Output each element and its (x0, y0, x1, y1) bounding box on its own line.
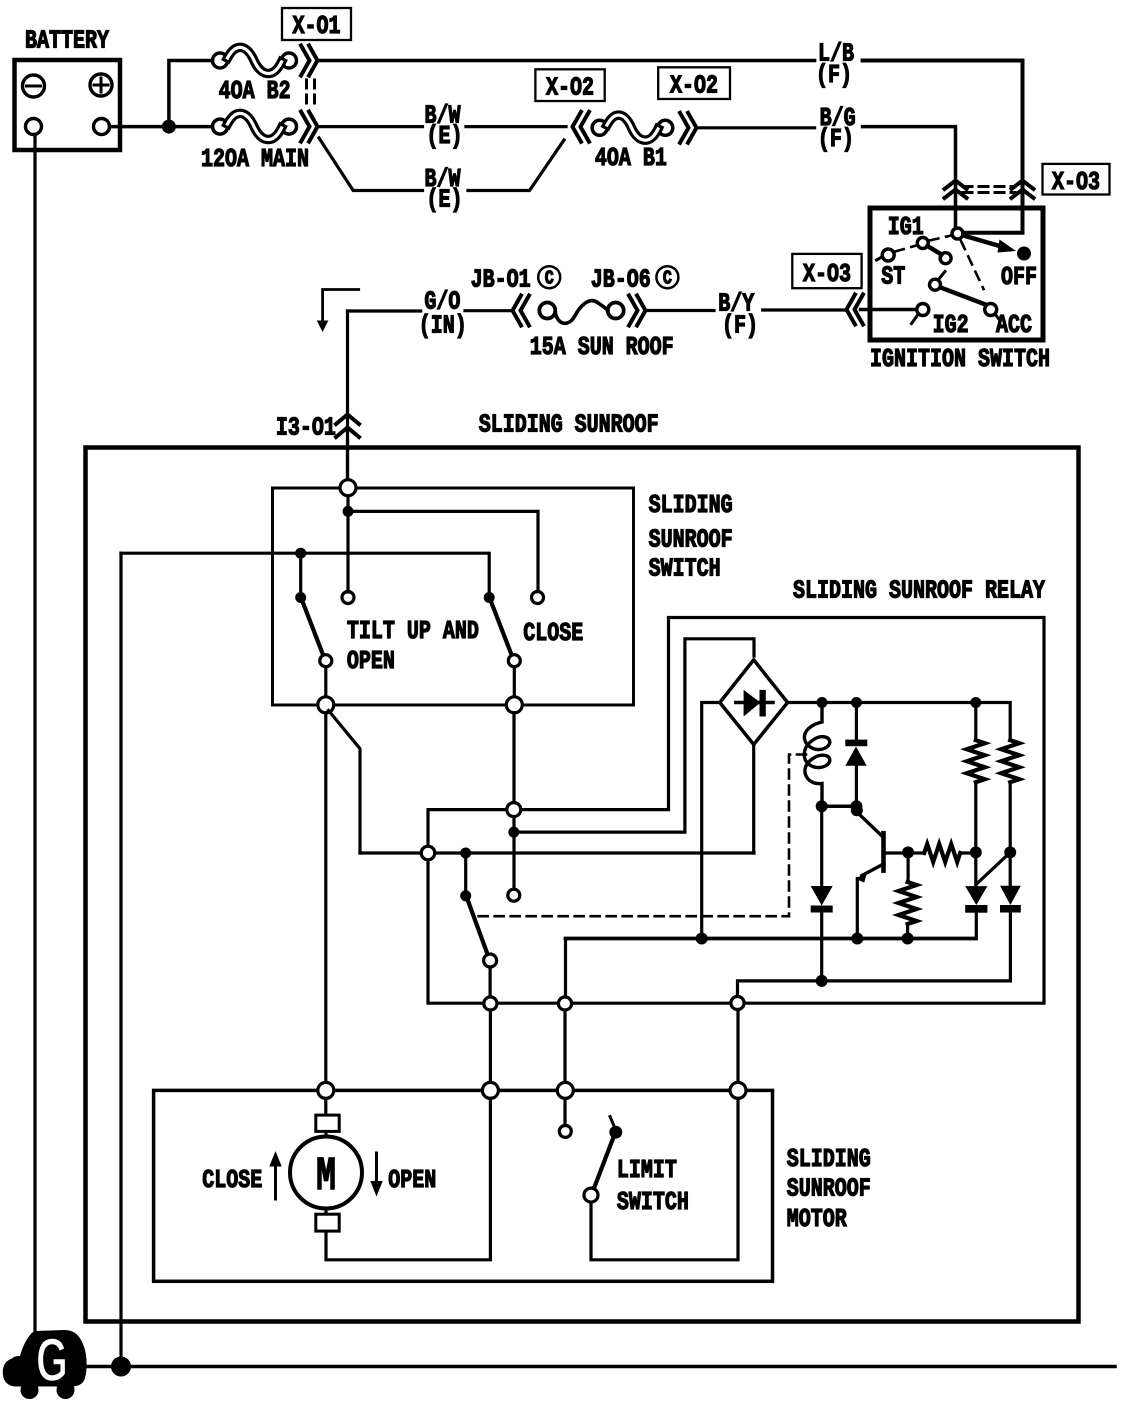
svg-text:I3-O1: I3-O1 (276, 413, 336, 442)
wire B/Y right segment (763, 308, 846, 311)
svg-text:(F): (F) (722, 311, 758, 340)
svg-text:C: C (663, 269, 672, 290)
relay contact pivot (460, 890, 471, 901)
junction bus emitter (851, 933, 863, 945)
connector label X-03 top (1043, 164, 1110, 197)
wire G/O corner segment (348, 309, 421, 312)
wire B/G right segment to ignition (863, 127, 956, 228)
junction Q1 base node (902, 846, 914, 858)
wire motor armature loop (326, 1098, 491, 1259)
node C3 (484, 997, 497, 1010)
svg-text:SWITCH: SWITCH (649, 554, 721, 583)
wire bus drop to C4 (564, 939, 567, 998)
wire common to close contact (348, 511, 538, 591)
svg-text:(F): (F) (816, 61, 852, 90)
terminal limit return (730, 1082, 746, 1098)
svg-text:(IN): (IN) (419, 311, 467, 340)
value label 40A B2 (219, 77, 291, 106)
connector label X-02 left (535, 69, 604, 102)
connector dashed link X-03 (963, 187, 1015, 193)
battery label (25, 26, 109, 55)
pin label IG2 (933, 311, 969, 340)
junction label JB-06 circled C (591, 265, 679, 294)
wire contact pivot stub (464, 853, 467, 892)
svg-text:(E): (E) (427, 185, 463, 214)
svg-text:SLIDING: SLIDING (787, 1145, 871, 1174)
svg-text:SLIDING SUNROOF RELAY: SLIDING SUNROOF RELAY (793, 576, 1045, 605)
resistor R3 (899, 852, 917, 938)
svg-text:X-O3: X-O3 (1052, 168, 1100, 197)
ignition contact inner (940, 253, 951, 264)
relay coil L1 (804, 703, 829, 807)
junction rail coil (817, 697, 828, 708)
svg-text:C: C (545, 269, 554, 290)
resistor R2 (908, 844, 976, 862)
limit switch arm (594, 1139, 614, 1190)
switch arm close (491, 602, 512, 657)
wire tilt output to motor (324, 713, 327, 1083)
dashed mechanical link relay (478, 755, 806, 917)
diode D2 (811, 806, 833, 981)
terminal switch close output (506, 697, 522, 713)
svg-text:X-O2: X-O2 (546, 73, 594, 102)
value label 120A MAIN (201, 145, 309, 174)
wire diamond bottom to node row (752, 745, 755, 854)
wire relay loop (428, 618, 1044, 1004)
wire B/G left segment (697, 126, 815, 129)
svg-text:SLIDING: SLIDING (649, 491, 733, 520)
svg-text:X-O2: X-O2 (670, 71, 718, 100)
node C4 (558, 997, 571, 1010)
battery box (15, 60, 121, 150)
wire tilt arm to terminal (324, 667, 327, 698)
svg-text:JB-O6: JB-O6 (591, 265, 651, 294)
pin label ST (881, 262, 905, 291)
svg-text:SWITCH: SWITCH (617, 1188, 689, 1217)
diagonal link D4 to R5 node (977, 854, 1010, 885)
svg-text:SLIDING SUNROOF: SLIDING SUNROOF (479, 410, 659, 439)
diode D5 (1000, 858, 1021, 981)
wire limit switch return (591, 1098, 738, 1259)
diode D1 (845, 703, 867, 807)
pin label IG1 (888, 213, 924, 242)
wire switch common drop (346, 496, 349, 592)
node C5 (731, 996, 744, 1009)
battery positive terminal symbol (90, 74, 112, 96)
connector chevrons X-02 male (680, 113, 697, 143)
svg-text:OFF: OFF (1001, 263, 1037, 292)
junction output bus left (295, 548, 306, 559)
sliding sunroof assembly box (86, 448, 1079, 1322)
connector chevrons I3-01 (336, 415, 359, 438)
svg-text:12OA MAIN: 12OA MAIN (201, 145, 309, 174)
diode D4 (965, 858, 987, 938)
bridge diode symbol (736, 690, 773, 717)
wire close arm to terminal (513, 667, 516, 698)
wire close output drop (512, 713, 515, 889)
terminal switch tilt output (318, 697, 334, 713)
sliding sunroof relay label (793, 576, 1045, 605)
wire C5 to motor terminal (736, 1010, 739, 1083)
terminal motor open (482, 1082, 498, 1098)
battery negative post (26, 119, 42, 135)
wire feed into switch terminal (346, 440, 349, 487)
label CLOSE with arrow (202, 1151, 282, 1199)
connector chevrons X-01 row2 (301, 112, 318, 142)
limit switch fixed contact (559, 1125, 571, 1137)
fuse 40A B1 (592, 115, 673, 140)
connector chevrons X-03 on B/G wire (945, 181, 967, 199)
wire B/Y into IG2 (861, 308, 917, 312)
ground bus wire (84, 1365, 1115, 1368)
wire B/W upper right segment (466, 125, 566, 128)
ignition contact ST (877, 249, 895, 261)
svg-text:X-O1: X-O1 (292, 12, 340, 41)
connector chevrons X-02 female (573, 112, 590, 142)
pin label ACC (996, 311, 1032, 340)
connector chevrons X-01 row1 (301, 46, 318, 76)
wire B/Y left segment (646, 309, 715, 312)
ignition contact ACC (985, 304, 1000, 321)
net label B/G (F) (818, 104, 856, 154)
net label B/W (E) upper (425, 101, 463, 151)
connector label X-01 (282, 8, 351, 41)
svg-text:15A SUN ROOF: 15A SUN ROOF (530, 333, 674, 362)
svg-text:(E): (E) (427, 122, 463, 151)
svg-text:MOTOR: MOTOR (787, 1205, 847, 1234)
wire coil-D1 bottom link (822, 805, 857, 809)
svg-text:CLOSE: CLOSE (202, 1166, 262, 1195)
resistor R4 (967, 703, 985, 848)
ignition dashed detent lines (895, 236, 984, 290)
wire contact to node C3 (489, 967, 492, 998)
label SLIDING SUNROOF SWITCH (649, 491, 733, 584)
ignition contact IG1 (917, 238, 928, 249)
wire C4 to limit contact (563, 1010, 566, 1126)
switch arm tilt up and open (303, 602, 324, 657)
junction label JB-01 circled C (471, 265, 561, 294)
contact tilt center (342, 592, 354, 604)
ignition rotor arm to OFF (964, 236, 1017, 253)
relay contact arm end (484, 954, 497, 967)
wire switch output bus (121, 553, 489, 592)
net label L/B (F) (816, 39, 854, 90)
connector chevrons X-03 on L/B wire (1012, 181, 1034, 199)
terminal switch input (340, 480, 356, 496)
label OPEN with arrow (370, 1153, 436, 1197)
connector chevrons JB-06 (629, 296, 646, 326)
svg-text:IG2: IG2 (933, 311, 969, 340)
ignition lower pivot contact (930, 272, 946, 291)
svg-text:ACC: ACC (996, 311, 1032, 340)
junction bus diamond leg (696, 933, 708, 945)
limit switch arm end (584, 1188, 598, 1202)
fuse 120A MAIN (213, 113, 297, 139)
wire relay internal bus (566, 937, 976, 941)
connector label X-02 right (658, 67, 730, 100)
motor brush lower (316, 1214, 339, 1231)
svg-text:CLOSE: CLOSE (523, 619, 583, 648)
svg-text:4OA B2: 4OA B2 (219, 77, 291, 106)
wire diamond left leg to bus (702, 703, 720, 939)
value label 40A B1 (595, 144, 667, 173)
svg-text:OPEN: OPEN (347, 647, 395, 676)
connector label I3-01 (276, 413, 336, 442)
wire C3 to motor terminal (489, 1010, 492, 1082)
contact tilt pivot (295, 592, 306, 603)
contact close fixed (532, 592, 544, 604)
bridge diode diamond (720, 660, 788, 745)
terminal motor close (318, 1082, 334, 1098)
junction ground bus (111, 1357, 131, 1377)
svg-text:M: M (316, 1151, 336, 1204)
ignition switch label (870, 345, 1050, 374)
label CLOSE (523, 619, 583, 648)
junction switch common (343, 506, 354, 517)
net label B/W (E) lower (425, 165, 463, 215)
sliding sunroof title (479, 410, 659, 439)
battery positive post (94, 119, 110, 135)
wire lower return y981 (738, 981, 1011, 997)
ignition switch box (870, 208, 1043, 340)
junction bus R3 (902, 933, 914, 945)
connector chevrons X-03 on B/Y wire (847, 295, 864, 325)
contact tilt arm end (320, 655, 332, 667)
svg-text:LIMIT: LIMIT (617, 1156, 677, 1185)
node lower stub circle (508, 889, 520, 901)
junction R5 bottom (1004, 846, 1016, 858)
connector chevrons JB-01 (513, 296, 530, 326)
contact close pivot (484, 592, 495, 603)
junction battery feed (162, 120, 176, 134)
connector dashed link X-01 (307, 80, 315, 109)
annotation arrow to sunroof feed (317, 290, 359, 333)
wire battery ground drop (33, 135, 36, 1332)
fuse 40A B2 (213, 47, 297, 73)
resistor R5 (1001, 740, 1019, 847)
wire B/W upper left segment (318, 125, 423, 128)
transistor Q1 (856, 812, 908, 939)
ignition pivot contact (952, 228, 963, 239)
junction Q1 collector (851, 804, 863, 816)
wire left pivot drop (299, 553, 302, 592)
junction rail D1 (851, 697, 862, 708)
battery negative terminal symbol (23, 75, 45, 97)
svg-text:G: G (36, 1327, 68, 1395)
wire sunroof feed drop (346, 311, 349, 481)
connector label X-03 mid (792, 254, 861, 289)
junction close branch (508, 827, 519, 838)
wire tilt output branch diagonal (329, 711, 361, 854)
junction rail R4 (970, 697, 981, 708)
ignition OFF position dot (1017, 247, 1031, 261)
wire G/O to fuse (465, 309, 513, 312)
motor M1 body (290, 1137, 362, 1209)
svg-text:IG1: IG1 (888, 213, 924, 242)
ignition contact IG2 (912, 304, 929, 324)
sliding sunroof motor box (154, 1090, 773, 1281)
net label G/O (IN) (419, 287, 467, 340)
svg-text:4OA B1: 4OA B1 (595, 144, 667, 173)
node terminal C2 (507, 803, 521, 817)
wire node row y853 (360, 851, 754, 854)
svg-text:IGNITION SWITCH: IGNITION SWITCH (870, 345, 1050, 374)
svg-text:TILT UP AND: TILT UP AND (347, 617, 479, 646)
label TILT UP AND OPEN (347, 617, 479, 676)
node crossing C1 (421, 846, 435, 860)
label SLIDING SUNROOF MOTOR (787, 1145, 871, 1234)
wire relay supply rail (788, 703, 1011, 741)
junction D1 bottom (850, 800, 862, 812)
label LIMIT SWITCH (617, 1156, 689, 1217)
limit switch pivot (609, 1126, 622, 1139)
pin label OFF (1001, 263, 1037, 292)
wire B/W lower bypass path (319, 138, 564, 191)
svg-text:BATTERY: BATTERY (25, 26, 109, 55)
ignition rotor arm ACC (941, 288, 986, 305)
wire L/B left segment (318, 59, 815, 63)
svg-text:OPEN: OPEN (388, 1166, 436, 1195)
value label 15A SUN ROOF (530, 333, 674, 362)
fuse 15A SUN ROOF (539, 301, 623, 324)
ground body symbol G (3, 1327, 87, 1399)
wire switch bus to ground leg (119, 553, 122, 1366)
contact close arm end (508, 655, 520, 667)
wire branch up to fuse B2 (169, 61, 213, 127)
junction coil bottom (816, 800, 828, 812)
svg-text:JB-O1: JB-O1 (471, 265, 531, 294)
motor brush upper (316, 1115, 339, 1131)
ignition IG1 arm (928, 246, 942, 255)
limit switch pivot stub (610, 1117, 614, 1127)
svg-text:SUNROOF: SUNROOF (649, 525, 733, 554)
sliding sunroof switch box (273, 488, 634, 705)
svg-text:SUNROOF: SUNROOF (787, 1174, 871, 1203)
svg-text:ST: ST (881, 262, 905, 291)
junction relay contact common (460, 848, 471, 859)
junction D2 column return (816, 975, 828, 987)
junction R4 bottom (970, 846, 982, 858)
net label B/Y (F) (718, 289, 758, 340)
wire close branch to bridge (514, 639, 754, 832)
wire battery to junction (110, 125, 213, 129)
relay contact arm (468, 900, 489, 956)
svg-text:(F): (F) (818, 125, 854, 154)
svg-text:X-O3: X-O3 (803, 260, 851, 289)
terminal limit fixed (557, 1082, 573, 1098)
wire L/B right segment to ignition (863, 61, 1023, 233)
